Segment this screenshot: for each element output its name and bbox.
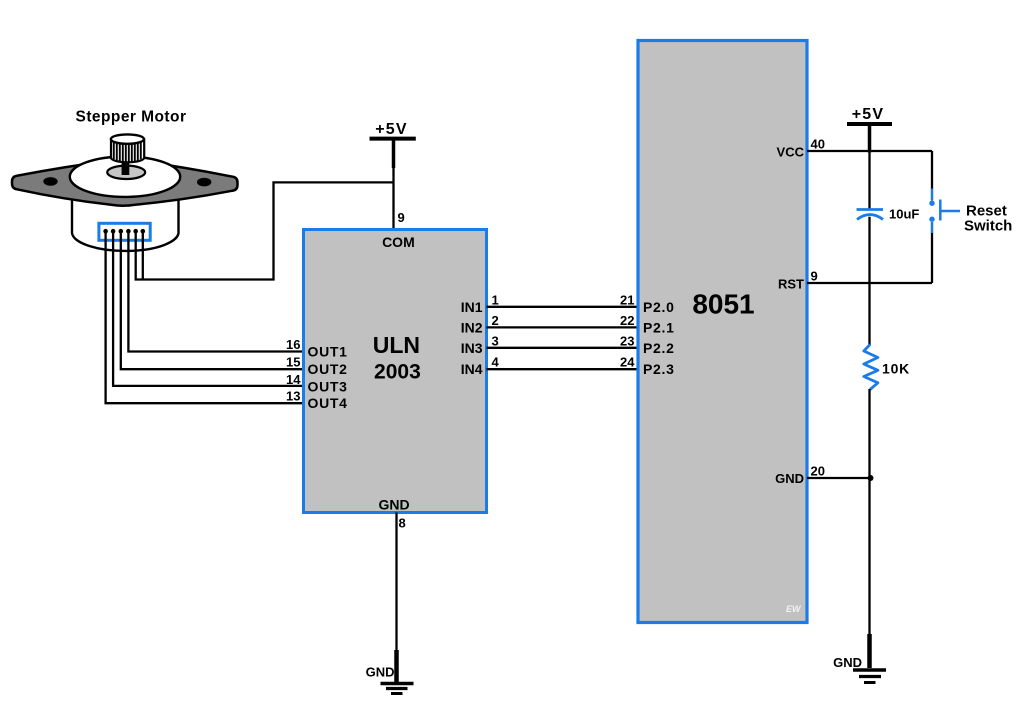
svg-text:21: 21 [620,292,634,307]
wire motor pin4 to OUT1 [128,231,303,351]
svg-text:GND: GND [775,471,804,486]
wire capacitor to RST node [868,217,870,346]
stepper motor M1 [12,109,238,251]
svg-text:8051: 8051 [692,289,754,320]
power +5V (left) [370,121,416,168]
svg-text:9: 9 [811,269,818,284]
wire motor pin3 to OUT2 [121,231,304,369]
mounting hole left [43,177,57,186]
connector pin dots [103,229,145,234]
wire resistor to GND node [868,389,870,652]
svg-text:24: 24 [620,355,635,370]
svg-text:2: 2 [492,313,499,328]
wire reset switch branch lower [931,233,933,284]
svg-text:+5V: +5V [375,121,408,138]
wire VCC pin 40 [807,150,932,152]
svg-text:OUT1: OUT1 [308,344,348,360]
svg-text:13: 13 [286,389,300,404]
wire +5V rail down to capacitor [868,151,870,209]
svg-text:Stepper Motor: Stepper Motor [76,109,187,126]
svg-text:P2.2: P2.2 [643,340,675,356]
wire motor pin1 to OUT4 [106,231,304,403]
svg-text:+5V: +5V [852,106,885,123]
svg-text:22: 22 [620,313,634,328]
motor shaft [122,159,130,175]
wire motor pin2 to OUT3 [113,231,303,386]
svg-text:VCC: VCC [777,145,805,160]
svg-text:OUT4: OUT4 [308,395,348,411]
wire ULN GND pin 8 to ground [395,513,397,653]
wire RST pin 9 [807,282,932,284]
svg-text:ULN: ULN [373,332,420,358]
knob knurl lines [114,142,141,163]
svg-text:20: 20 [811,464,825,479]
power +5V (right) [847,106,892,153]
svg-text:16: 16 [286,337,300,352]
svg-text:GND: GND [378,497,409,513]
wire +5V to COM pin 9 [392,166,394,230]
mounting hole right [197,178,211,187]
wire motor common to +5V node [136,182,394,279]
pushbutton SW1 reset switch [929,189,1012,235]
motor connector [99,223,150,240]
svg-text:8: 8 [399,516,406,531]
IC U2 8051 [620,41,825,623]
motor top face ellipse [70,157,180,197]
wire IN3 to P2.2 [487,347,639,349]
svg-text:OUT3: OUT3 [308,378,348,394]
svg-text:IN1: IN1 [461,299,483,315]
svg-text:10uF: 10uF [889,207,919,222]
svg-text:2003: 2003 [374,361,421,384]
wire reset switch branch upper [931,151,933,189]
svg-text:P2.0: P2.0 [643,299,675,315]
wire GND pin 20 [807,477,871,479]
svg-text:RST: RST [778,277,804,292]
svg-text:15: 15 [286,355,300,370]
svg-text:Switch: Switch [964,218,1012,235]
motor body cylinder [72,196,179,251]
svg-text:3: 3 [492,333,499,348]
motor hub ellipse [107,166,145,179]
capacitor C1 10uF [857,207,920,222]
svg-text:OUT2: OUT2 [308,361,348,377]
svg-text:10K: 10K [882,361,910,377]
svg-text:EW: EW [786,604,802,614]
IC U1 ULN2003 [286,210,499,513]
junction dot GND node [868,475,874,481]
svg-text:P2.1: P2.1 [643,319,675,335]
svg-text:14: 14 [286,372,301,387]
ground symbol (under ULN) [366,650,414,694]
ground symbol (right) [833,634,886,683]
wire motor pin6 to common [142,231,144,279]
svg-text:IN4: IN4 [461,361,483,377]
wire IN2 to P2.1 [487,326,639,328]
knob top ellipse [111,134,144,143]
svg-text:GND: GND [833,655,862,670]
svg-text:COM: COM [382,234,415,250]
svg-text:40: 40 [811,137,825,152]
svg-text:P2.3: P2.3 [643,361,675,377]
svg-text:23: 23 [620,333,634,348]
svg-text:IN2: IN2 [461,319,483,335]
wire IN1 to P2.0 [487,306,639,308]
svg-text:9: 9 [398,210,405,225]
resistor R1 10K [864,345,910,390]
knurled knob body [111,139,144,162]
wire IN4 to P2.3 [487,368,639,370]
svg-text:GND: GND [366,665,395,680]
svg-text:4: 4 [492,355,500,370]
svg-text:IN3: IN3 [461,340,483,356]
motor mounting flange [12,159,238,205]
svg-text:1: 1 [492,292,499,307]
